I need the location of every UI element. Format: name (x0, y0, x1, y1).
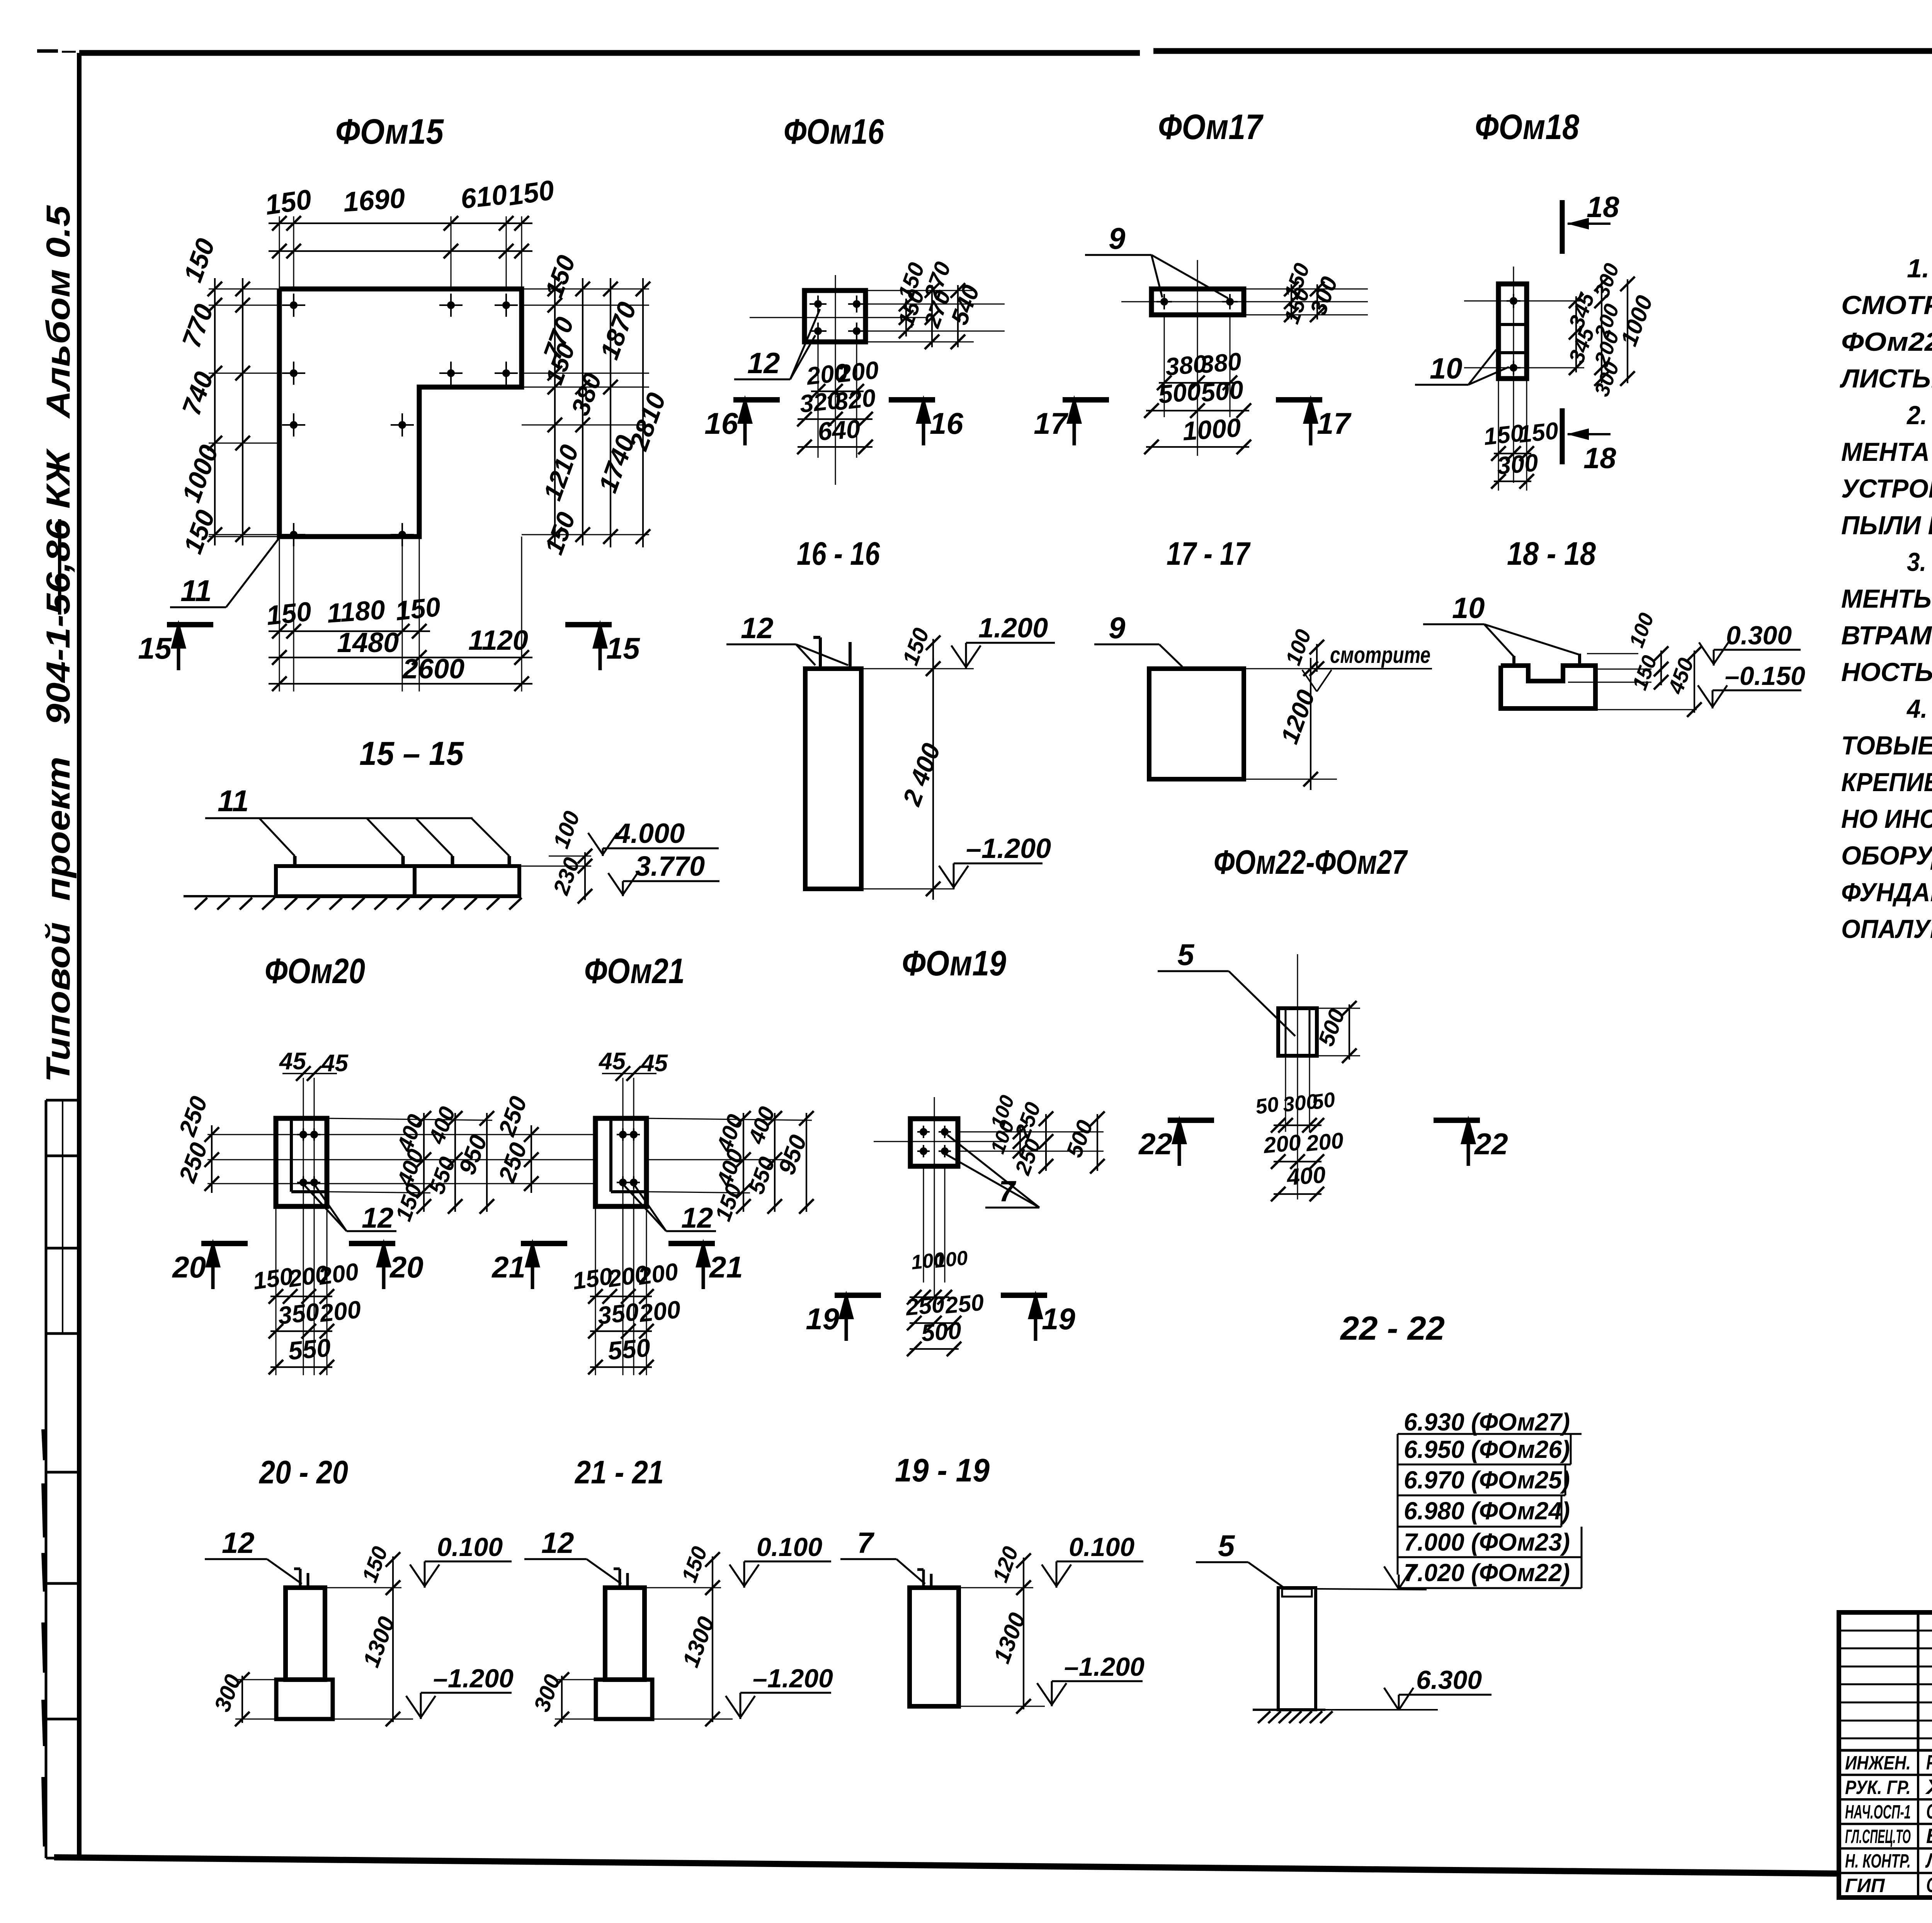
svg-text:–1.200: –1.200 (753, 1664, 833, 1693)
svg-text:19: 19 (806, 1302, 839, 1336)
svg-text:21 - 21: 21 - 21 (574, 1454, 664, 1490)
svg-text:7.020 (ФОм22): 7.020 (ФОм22) (1404, 1559, 1570, 1587)
svg-text:4.000: 4.000 (614, 818, 685, 849)
svg-text:3.770: 3.770 (635, 851, 705, 882)
svg-text:150: 150 (265, 596, 313, 631)
svg-text:7: 7 (999, 1175, 1017, 1208)
svg-text:Н. КОНТР.: Н. КОНТР. (1845, 1850, 1911, 1872)
svg-text:15: 15 (138, 631, 172, 665)
svg-text:6.950 (ФОм26): 6.950 (ФОм26) (1404, 1435, 1570, 1463)
svg-text:ГЛ.СПЕЦ.ТО: ГЛ.СПЕЦ.ТО (1845, 1826, 1911, 1847)
svg-text:16 - 16: 16 - 16 (797, 535, 880, 572)
svg-text:550: 550 (287, 1333, 332, 1365)
svg-text:22: 22 (1474, 1127, 1508, 1161)
svg-text:ФОм21: ФОм21 (584, 951, 685, 991)
svg-text:Типовой проект 904-1-56,86: Типовой проект 904-1-56,86 КЖ Альбом 0.5 (40, 205, 77, 1082)
svg-text:640: 640 (817, 414, 861, 446)
svg-text:45: 45 (640, 1050, 668, 1077)
svg-text:45: 45 (279, 1048, 306, 1075)
svg-text:9: 9 (1109, 221, 1126, 255)
svg-text:18: 18 (1587, 191, 1619, 224)
svg-text:200: 200 (636, 1258, 680, 1290)
svg-text:9: 9 (1109, 611, 1126, 645)
svg-text:6.930 (ФОм27): 6.930 (ФОм27) (1404, 1408, 1570, 1436)
svg-text:200: 200 (1304, 1128, 1344, 1156)
svg-text:ОПАЛУБКУ ДО БЕТОНИРОВАНИЯ Ф: ОПАЛУБКУ ДО БЕТОНИРОВАНИЯ ФУНДАМЕНТА. (1841, 914, 1932, 944)
svg-text:ОСТАШЕВСКИЙ: ОСТАШЕВСКИЙ (1926, 1873, 1932, 1897)
svg-text:12: 12 (741, 612, 774, 645)
svg-text:150: 150 (263, 184, 313, 221)
svg-text:400: 400 (1286, 1162, 1327, 1190)
svg-text:УСТРОЙСТВА ФУНДАМЕНТА ТЩАТЕЛ: УСТРОЙСТВА ФУНДАМЕНТА ТЩАТЕЛЬНО ОЧИСТИТЬ… (1841, 473, 1932, 503)
svg-text:10: 10 (1452, 592, 1485, 625)
svg-text:ФУНДАМЕНТНЫЕ БОЛТЫ ТИПА 1 У: ФУНДАМЕНТНЫЕ БОЛТЫ ТИПА 1 УСТАНАВЛИВАЮТС… (1841, 878, 1932, 907)
svg-text:250: 250 (904, 1291, 946, 1320)
svg-text:200: 200 (318, 1295, 362, 1327)
svg-text:БОЯРЧЕНКО: БОЯРЧЕНКО (1926, 1824, 1932, 1848)
svg-text:0.100: 0.100 (437, 1532, 503, 1562)
svg-text:0.100: 0.100 (757, 1532, 822, 1562)
svg-text:1.200: 1.200 (978, 613, 1048, 644)
svg-text:200: 200 (316, 1258, 360, 1290)
svg-text:ФОм17: ФОм17 (1158, 107, 1264, 147)
svg-text:17: 17 (1317, 406, 1352, 440)
svg-text:ФОм15: ФОм15 (335, 112, 444, 151)
svg-text:10: 10 (1430, 352, 1463, 385)
svg-text:17 - 17: 17 - 17 (1167, 535, 1251, 572)
svg-text:смотрите: смотрите (1330, 642, 1430, 668)
svg-text:ТОВЫЕ ФУНДАМЕНТЫ В ПРОСВЕРЛ: ТОВЫЕ ФУНДАМЕНТЫ В ПРОСВЕРЛЕННЫЕ СКВАЖИН… (1841, 731, 1932, 760)
svg-text:1480: 1480 (337, 627, 399, 658)
svg-text:0.300: 0.300 (1726, 621, 1792, 650)
svg-text:12: 12 (222, 1527, 255, 1559)
svg-text:300: 300 (1496, 448, 1539, 480)
svg-text:1690: 1690 (342, 183, 406, 218)
svg-text:ЛУЦЕНКО: ЛУЦЕНКО (1925, 1849, 1932, 1872)
svg-text:21: 21 (491, 1250, 526, 1284)
svg-text:СМОТРИТЕ НА ЧЕРТЕЖАХ ТП904-: СМОТРИТЕ НА ЧЕРТЕЖАХ ТП904-1- -АР, ФУНДА… (1841, 290, 1932, 320)
svg-text:250: 250 (944, 1289, 985, 1318)
svg-text:50: 50 (1254, 1092, 1280, 1119)
svg-text:12: 12 (541, 1527, 574, 1559)
svg-text:СААКЬЯНЦ: СААКЬЯНЦ (1926, 1800, 1932, 1823)
svg-text:11: 11 (218, 784, 249, 818)
svg-text:500: 500 (1200, 375, 1245, 407)
svg-text:ПЫЛИ И ГРЯЗИ И ПРОМЫТЬ ВОД: ПЫЛИ И ГРЯЗИ И ПРОМЫТЬ ВОДОЙ. (1841, 510, 1932, 540)
svg-text:5: 5 (1218, 1529, 1235, 1563)
svg-text:НО ИНСТРУКЦИИ ПО КРЕПЛЕНИЮ: НО ИНСТРУКЦИИ ПО КРЕПЛЕНИЮ ТЕХНОЛОГИЧЕСК… (1841, 804, 1932, 834)
svg-text:1180: 1180 (326, 595, 386, 629)
svg-text:200: 200 (836, 356, 880, 388)
svg-text:500: 500 (920, 1317, 962, 1347)
svg-text:380: 380 (1199, 347, 1243, 379)
svg-text:ФОм16: ФОм16 (784, 112, 884, 151)
svg-text:РЕШЕТНИКОВА: РЕШЕТНИКОВА (1926, 1751, 1932, 1774)
svg-text:17: 17 (1034, 406, 1068, 440)
svg-text:1. МЕСТОПОЛОЖЕНИЕ ФУНДАМЕНТОВ: 1. МЕСТОПОЛОЖЕНИЕ ФУНДАМЕНТОВ ФОм3-ФОм21 (1907, 254, 1932, 283)
svg-text:50: 50 (1310, 1088, 1337, 1114)
svg-text:5: 5 (1177, 938, 1195, 972)
svg-text:3. ПОДГОТОВКУ ОСНОВАНИЯ ПОД: 3. ПОДГОТОВКУ ОСНОВАНИЯ ПОД МОНОЛИТНЫЕ Ф… (1907, 547, 1932, 577)
svg-text:12: 12 (362, 1202, 393, 1234)
svg-text:ФОм19: ФОм19 (902, 944, 1006, 983)
svg-text:МЕНТЫ, НАХОДЯЩИЕСЯ В ГРУНТЕ: МЕНТЫ, НАХОДЯЩИЕСЯ В ГРУНТЕ, ВЫПОЛНЯТЬ П… (1841, 584, 1932, 613)
svg-text:22 - 22: 22 - 22 (1340, 1310, 1445, 1347)
svg-text:НОСТЬЮ 40-60 ММ.: НОСТЬЮ 40-60 ММ. (1841, 657, 1932, 687)
svg-text:КРЕПИВ БОЛТЫ С ПОМОЩЬЮ ЭПО: КРЕПИВ БОЛТЫ С ПОМОЩЬЮ ЭПОКСИДНОГО КЛЕЯ,… (1841, 768, 1932, 797)
svg-text:РУК. ГР.: РУК. ГР. (1845, 1777, 1911, 1798)
svg-text:150: 150 (1517, 417, 1560, 448)
svg-text:200: 200 (638, 1295, 682, 1327)
svg-text:2. ПЕРЕД УКЛАДКОЙ БЕТОНА В: 2. ПЕРЕД УКЛАДКОЙ БЕТОНА В ОПАЛУБКУ ФУНД… (1906, 400, 1932, 430)
svg-text:320: 320 (833, 384, 877, 416)
svg-text:ФОм20: ФОм20 (265, 951, 365, 991)
svg-text:6.300: 6.300 (1416, 1665, 1482, 1695)
svg-text:ФОм22 - ФОм27 НА ЧЕРТЕЖАХ: ФОм22 - ФОм27 НА ЧЕРТЕЖАХ ТП904-1- - КЖ (1841, 327, 1932, 357)
svg-text:–1.200: –1.200 (1064, 1652, 1145, 1682)
svg-text:18 - 18: 18 - 18 (1507, 535, 1596, 572)
svg-text:ХАНИН: ХАНИН (1925, 1775, 1932, 1799)
svg-text:22: 22 (1138, 1127, 1172, 1161)
svg-text:21: 21 (709, 1250, 743, 1284)
svg-text:20: 20 (389, 1250, 423, 1284)
svg-text:19: 19 (1042, 1302, 1075, 1336)
svg-text:ВТРАМБОВАНИЯ В ГРУНТ ЩЕБНЯ: ВТРАМБОВАНИЯ В ГРУНТ ЩЕБНЯ ИЛИ ГРАВИЯ КР… (1841, 621, 1932, 650)
svg-text:15 – 15: 15 – 15 (359, 735, 464, 772)
svg-text:12: 12 (681, 1202, 713, 1234)
svg-text:100: 100 (933, 1247, 969, 1272)
svg-text:19 - 19: 19 - 19 (895, 1452, 990, 1488)
svg-text:16: 16 (930, 406, 963, 440)
svg-text:ОБОРУДОВАНИЯ ФУНДАМЕНТНЫМИ Б: ОБОРУДОВАНИЯ ФУНДАМЕНТНЫМИ БОЛТАМИ СН471… (1841, 841, 1932, 870)
svg-text:ГИП: ГИП (1845, 1875, 1885, 1896)
svg-text:500: 500 (1157, 377, 1202, 409)
svg-text:150: 150 (506, 175, 556, 212)
svg-text:350: 350 (277, 1298, 321, 1330)
svg-text:4. ФУНДАМЕНТНЫЕ БОЛТЫ ТИПА: 4. ФУНДАМЕНТНЫЕ БОЛТЫ ТИПА 5 УСТАНОВИТЬ … (1906, 694, 1932, 724)
svg-text:16: 16 (704, 406, 738, 440)
svg-text:1000: 1000 (1182, 413, 1242, 446)
svg-text:7: 7 (857, 1527, 875, 1559)
svg-text:7.000 (ФОм23): 7.000 (ФОм23) (1404, 1528, 1570, 1556)
svg-text:200: 200 (1262, 1130, 1302, 1158)
svg-text:11: 11 (180, 574, 212, 608)
svg-text:–1.200: –1.200 (966, 833, 1051, 864)
svg-text:ИНЖЕН.: ИНЖЕН. (1845, 1752, 1911, 1774)
svg-text:18: 18 (1583, 442, 1616, 475)
svg-text:45: 45 (321, 1050, 349, 1077)
svg-text:–0.150: –0.150 (1725, 661, 1805, 691)
svg-text:550: 550 (607, 1333, 651, 1365)
svg-text:ФОм18: ФОм18 (1475, 107, 1580, 147)
svg-text:350: 350 (596, 1298, 640, 1330)
svg-text:–1.200: –1.200 (433, 1664, 514, 1693)
svg-text:12: 12 (747, 347, 780, 380)
svg-text:1120: 1120 (468, 625, 528, 656)
svg-text:45: 45 (598, 1048, 626, 1075)
svg-text:0.100: 0.100 (1069, 1532, 1134, 1562)
svg-text:2600: 2600 (402, 654, 464, 685)
svg-text:610: 610 (459, 179, 509, 215)
svg-text:150: 150 (394, 591, 442, 626)
svg-text:20: 20 (172, 1250, 206, 1284)
svg-text:ЛИСТЫ 42, 46.: ЛИСТЫ 42, 46. (1839, 364, 1932, 393)
svg-text:15: 15 (606, 631, 640, 665)
svg-text:МЕНТА ФОм15 ПОВЕРХНОСТЬ ПЕР: МЕНТА ФОм15 ПОВЕРХНОСТЬ ПЕРЕКРЫТИЯ В МЕС… (1841, 437, 1932, 467)
svg-text:ФОм22-ФОм27: ФОм22-ФОм27 (1214, 843, 1408, 881)
svg-text:20 - 20: 20 - 20 (259, 1454, 348, 1490)
svg-text:НАЧ.ОСП-1: НАЧ.ОСП-1 (1845, 1801, 1911, 1823)
svg-text:6.970 (ФОм25): 6.970 (ФОм25) (1404, 1466, 1570, 1494)
svg-text:6.980 (ФОм24): 6.980 (ФОм24) (1404, 1497, 1570, 1525)
